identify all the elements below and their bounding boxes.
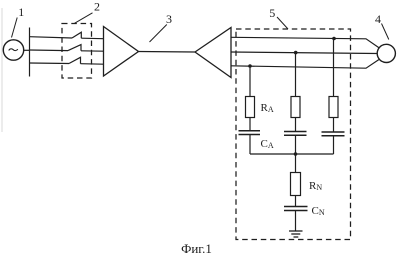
switch S2 blade	[68, 45, 81, 51]
wire phase B: bus to switch S2	[30, 49, 69, 52]
node B (junction dot, middle phase)	[294, 51, 298, 55]
filter box 5 (dashed)	[236, 29, 351, 240]
resistor RA2	[291, 97, 300, 118]
breaker box 2 (dashed)	[62, 24, 92, 79]
svg-text:CA: CA	[261, 138, 274, 150]
svg-text:RA: RA	[261, 102, 274, 114]
wire: node B down to resistor RA2	[295, 53, 297, 97]
leader line for label 2	[75, 13, 93, 23]
svg-text:5: 5	[269, 6, 275, 20]
resistor RA3	[329, 97, 338, 118]
generator G1 (AC source)	[3, 40, 23, 60]
wire phase A: switch S1 to converter	[81, 37, 103, 40]
converter U1 (triangle)	[104, 27, 139, 77]
wire: RA1 to capacitor CA1	[249, 118, 251, 131]
wire phase B right: converter to motor	[231, 52, 378, 54]
svg-text:Фиг.1: Фиг.1	[181, 241, 212, 255]
svg-text:4: 4	[375, 12, 381, 26]
wire phase A right: converter to motor	[231, 37, 379, 47]
svg-text:CN: CN	[312, 205, 325, 217]
leader line for label 1	[12, 18, 18, 38]
wire: CA2 down to common bus	[295, 135, 297, 154]
wire: RN to capacitor CN	[295, 196, 297, 207]
wire: node C down to resistor RA3	[333, 39, 335, 97]
switch S3 blade	[69, 57, 81, 63]
wire phase C right: converter to motor	[231, 60, 379, 69]
capacitor CA1	[239, 131, 261, 135]
wire: CA1 down to common bus	[249, 135, 251, 155]
motor M (circle 4)	[377, 44, 395, 62]
switch S1 blade	[72, 32, 81, 38]
wire phase B: switch S2 to converter	[81, 50, 104, 52]
ground	[289, 231, 303, 237]
svg-text:2: 2	[94, 0, 100, 14]
leader line for label 3	[150, 25, 167, 43]
leader line for label 4	[382, 24, 389, 40]
node N (junction dot on common bus)	[294, 152, 298, 156]
wire: RA2 to capacitor CA2	[295, 118, 297, 132]
wire phase C: switch S3 to converter	[81, 63, 104, 65]
wire: RA3 to capacitor CA3	[333, 118, 335, 133]
scan edge artifact line	[1, 8, 3, 132]
capacitor CA2	[284, 132, 307, 136]
converter U2 (triangle)	[195, 28, 231, 78]
svg-text:RN: RN	[309, 180, 322, 192]
bus bar (vertical)	[29, 28, 31, 77]
common bus wire (horizontal)	[250, 153, 334, 155]
transmission line 3	[139, 51, 196, 54]
leader line for label 5	[277, 17, 288, 29]
resistor RN	[291, 173, 301, 196]
wire phase A: bus to switch S1	[30, 37, 73, 38]
wire: generator to bus	[24, 49, 30, 51]
capacitor CN	[284, 207, 308, 211]
wire: node A down to resistor RA1	[249, 66, 251, 97]
svg-text:1: 1	[18, 5, 24, 19]
node A (junction dot, bottom phase)	[248, 64, 252, 68]
svg-text:3: 3	[166, 12, 172, 26]
wire phase C: bus to switch S3	[30, 62, 70, 65]
wire: CN down to ground	[295, 211, 297, 231]
capacitor CA3	[322, 132, 345, 136]
resistor RA1	[246, 97, 255, 118]
node C (junction dot, top phase)	[332, 37, 336, 41]
wire: node N down to resistor RN	[295, 154, 297, 173]
wire: CA3 down to common bus	[333, 136, 335, 154]
